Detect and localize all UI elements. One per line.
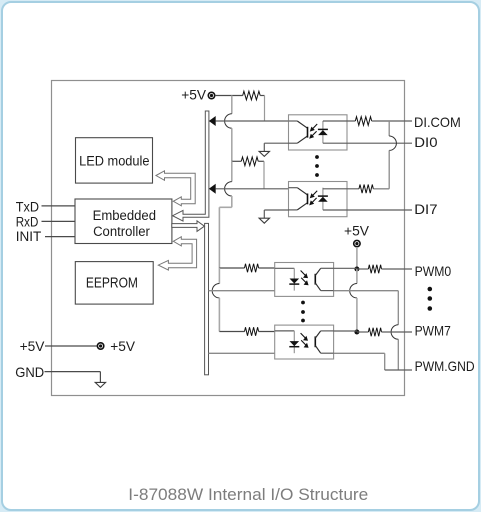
arrow controller-LED module (double headed) xyxy=(156,171,195,206)
wire DI7 row left xyxy=(216,188,289,190)
wire U4 collector to PWM7 xyxy=(334,330,357,332)
optocoupler U4 (PWM7) xyxy=(275,325,334,359)
optocoupler U3 (PWM0) xyxy=(275,263,334,297)
ellipsis dots DI optos xyxy=(315,155,319,159)
svg-text:DI.COM: DI.COM xyxy=(414,114,461,130)
resistor PWM LED R4 xyxy=(219,331,244,333)
wire +5V dropper vertical upper xyxy=(231,96,233,114)
resistor PWM LED R3 xyxy=(219,267,244,269)
resistor DI pullup R1 xyxy=(243,91,261,100)
arrow DI0 data into bus xyxy=(209,116,216,126)
wire R1 to DI.COM row xyxy=(260,95,264,97)
wire jump over DI0 row xyxy=(389,136,396,150)
svg-text:RxD: RxD xyxy=(16,213,39,229)
svg-text:I-87088W Internal I/O Structur: I-87088W Internal I/O Structure xyxy=(128,486,368,504)
svg-text:+5V: +5V xyxy=(344,223,370,239)
wire +5V input xyxy=(45,345,97,347)
svg-text:DI7: DI7 xyxy=(414,201,437,217)
wire U4 emitter return xyxy=(334,352,385,354)
svg-text:+5V: +5V xyxy=(110,338,135,354)
wire R2 to DI7 row xyxy=(258,160,264,162)
resistor PWM7 series R8 xyxy=(368,328,381,337)
resistor DI input R5 xyxy=(355,117,371,126)
main module boundary xyxy=(52,81,405,396)
wire U3 emitter return to PWM.GND xyxy=(334,290,399,292)
wire jump over DI7 row xyxy=(231,161,233,181)
wire PWM.GND row xyxy=(385,369,412,371)
svg-text:Embedded: Embedded xyxy=(93,208,156,224)
wire jump over DI.COM row xyxy=(225,114,232,128)
resistor DI input R6 xyxy=(323,188,359,190)
svg-text:EEPROM: EEPROM xyxy=(86,275,138,292)
svg-text:PWM0: PWM0 xyxy=(415,263,452,279)
svg-text:+5V: +5V xyxy=(20,338,45,354)
wire DI.COM branch vertical xyxy=(388,121,390,136)
ground symbol U1 xyxy=(259,151,269,156)
resistor PWM0 series R7 xyxy=(368,265,381,274)
EEPROM block xyxy=(75,262,153,305)
wire U1 emitter to ground xyxy=(264,142,288,144)
ground symbol (power input) xyxy=(95,382,105,387)
optocoupler U1 (DI0) xyxy=(289,115,348,150)
arrow controller-EEPROM (double headed) xyxy=(158,237,196,270)
wire TxD to controller xyxy=(42,205,76,207)
LED module block xyxy=(76,138,153,183)
wire PWM0 return from bus xyxy=(209,290,275,292)
wire DI0 row to terminal xyxy=(323,142,412,144)
svg-text:TxD: TxD xyxy=(16,198,39,214)
svg-text:DI0: DI0 xyxy=(414,134,437,150)
wire GND xyxy=(45,371,101,373)
wire DI.COM row left xyxy=(216,120,289,122)
wire jump over PWM0 return row xyxy=(218,268,220,284)
wire jump over PWM7 row xyxy=(391,325,398,339)
junction node PWM7 pullup xyxy=(354,330,359,335)
wire U3 collector to PWM0 xyxy=(334,267,357,269)
svg-text:PWM7: PWM7 xyxy=(415,323,451,339)
wire U1 LED top to R5 xyxy=(323,120,355,122)
ground symbol U2 xyxy=(259,218,269,223)
bus bar controller-to-PWM xyxy=(205,223,209,374)
wire RxD to controller xyxy=(42,220,76,222)
wire jump over PWM0 return xyxy=(350,284,357,298)
ellipsis dots PWM labels xyxy=(428,287,433,292)
wire DI7 row to terminal xyxy=(323,209,412,211)
svg-text:LED module: LED module xyxy=(79,154,149,170)
terminal circle +5V PWM xyxy=(354,240,360,246)
wire INIT to controller xyxy=(45,236,75,238)
svg-text:INIT: INIT xyxy=(16,228,42,244)
optocoupler U2 (DI7) xyxy=(289,182,348,217)
Embedded Controller block xyxy=(75,199,172,244)
resistor DI pullup R2 xyxy=(232,160,242,162)
svg-text:+5V: +5V xyxy=(181,87,206,103)
ellipsis dots PWM optos xyxy=(301,301,305,305)
arrow DI7 data into bus xyxy=(209,184,216,194)
wire to DI.COM terminal xyxy=(372,120,412,122)
wire PWM7 return from bus xyxy=(209,352,275,354)
terminal circle +5V internal xyxy=(97,343,103,349)
wire +5V top rail xyxy=(215,95,243,97)
svg-text:Controller: Controller xyxy=(93,224,150,240)
junction node PWM0 pullup xyxy=(354,267,359,272)
svg-text:GND: GND xyxy=(15,364,44,380)
svg-text:PWM.GND: PWM.GND xyxy=(415,358,475,374)
wire dropper jog down to PWM section xyxy=(231,196,233,207)
wire U2 emitter to ground xyxy=(264,209,288,211)
terminal circle +5V top xyxy=(208,92,214,98)
arrow controller to PWM bus xyxy=(172,221,205,232)
wire +5V PWM vertical xyxy=(356,247,358,269)
bus bar DI-to-controller (hollow arrow) xyxy=(173,111,209,221)
